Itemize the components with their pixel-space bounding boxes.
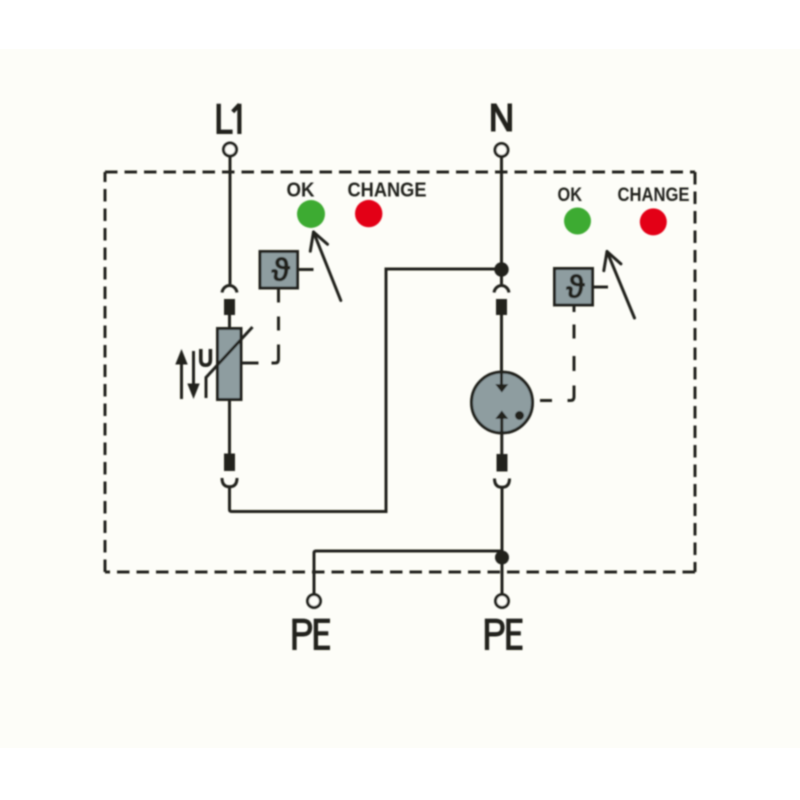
breakaway cup lower left [222,478,237,487]
wire varistor to lower contact [228,399,231,454]
varistor RV1 diagonal stroke [206,327,253,398]
svg-text:OK: OK [287,180,316,202]
enclosure dashed border right [694,172,697,572]
disconnect contact F3 upper right [496,299,507,315]
label U [201,349,211,365]
varistor RV1 body [218,329,242,400]
svg-text:ϑ: ϑ [566,268,586,305]
GDT top electrode arrow [495,372,508,393]
wire GDT bottom to PE terminal [501,487,504,594]
breakaway arc upper right [494,286,509,293]
wire varistor bottom to N junction [230,269,502,512]
wire N down [500,157,503,285]
U arrow down [187,351,199,399]
LED CHANGE red right [640,208,667,235]
dashed link T2 to GDT [540,305,574,401]
wire GDT to lower contact [500,430,503,455]
svg-text:ϑ: ϑ [271,251,291,288]
node PE label right [485,619,523,650]
GDT gas-filled indicator dot [515,411,524,420]
gas discharge tube GDT body [472,372,533,433]
thermal disconnect T1 box [260,252,298,289]
enclosure dashed border top [105,171,695,174]
wire L1 down [229,156,232,284]
dashed link T1 to varistor [272,288,279,363]
terminal PE right [496,595,509,608]
disconnect contact F2 lower [224,454,235,472]
indicator arrow right [604,252,635,319]
svg-text:OK: OK [558,185,583,206]
svg-text:CHANGE: CHANGE [348,180,427,202]
wire PE junction to left PE terminal [314,551,502,595]
node L1 label [217,104,240,134]
wire to varistor [228,315,231,330]
U arrow up [175,349,187,399]
breakaway arc upper left [222,286,237,293]
enclosure dashed border left [104,172,107,572]
thermal disconnect T1 right stub [298,268,314,271]
node PE label left [292,619,330,650]
wire to gas discharge tube [500,315,503,385]
thermal disconnect T2 right stub [593,286,609,289]
LED CHANGE red left [355,200,382,227]
enclosure dashed border bottom [105,571,695,574]
junction PE [495,551,509,565]
disconnect contact F4 lower right [497,454,508,472]
node N label [491,104,512,132]
breakaway cup lower right [495,479,510,488]
thermal disconnect T2 box [555,269,593,306]
disconnect contact F1 upper [224,299,235,315]
indicator arrow left [310,232,341,301]
terminal L1 [224,143,237,156]
terminal PE left [308,595,321,608]
GDT bottom electrode arrow [495,411,508,434]
terminal N [495,144,508,157]
LED OK green left [297,200,325,228]
junction N-varistor [494,262,508,276]
svg-text:CHANGE: CHANGE [618,185,690,206]
varistor RV1 right stub [241,362,259,365]
LED OK green right [564,208,591,235]
